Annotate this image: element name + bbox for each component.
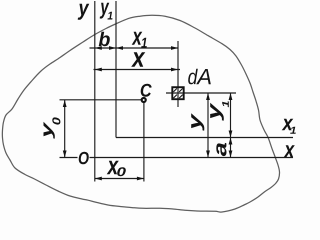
label b (99, 32, 110, 47)
arrowheads x1 dimension (116, 46, 123, 50)
arrowheads a dimension (229, 138, 233, 145)
element dA square (172, 87, 183, 99)
label x0 (dimension) (107, 161, 126, 177)
x axis left stub (60, 157, 78, 159)
centroid C point (142, 98, 146, 102)
arrowheads y0 dimension (63, 100, 67, 107)
arrowheads x dimension (95, 68, 102, 72)
y1 axis (115, 1, 117, 138)
wire extension from C down (143, 102, 145, 182)
label C (141, 84, 152, 97)
label y1 (rotated dimension) (210, 101, 229, 121)
arrowheads y dimension (206, 93, 210, 100)
label y (rotated dimension) (191, 113, 204, 131)
wire dA vertical centerline (177, 41, 179, 107)
arrowheads b dimension (95, 46, 102, 50)
label x1 (axis) (282, 119, 296, 134)
dimension line x (94, 69, 181, 71)
label y1 (axis) (100, 3, 113, 20)
dimension line y0 (64, 100, 66, 158)
label y (axis) (78, 4, 90, 20)
area outline blob (2, 15, 279, 212)
label a (rotated dimension) (216, 143, 226, 156)
label x1 (dimension) (132, 32, 147, 48)
label x (axis) (284, 145, 295, 157)
label y0 (rotated) (44, 117, 61, 138)
x axis (90, 157, 294, 159)
label x (dimension) (131, 52, 145, 67)
dimension line y1 and a (230, 93, 232, 158)
label O origin (79, 152, 89, 165)
dimension line y (207, 93, 209, 158)
arrowheads x0 dimension (95, 177, 102, 181)
wire dA horizontal centerline (166, 92, 236, 94)
dimension line x0 (95, 178, 144, 180)
x1 axis (116, 137, 293, 139)
arrowheads y1 dimension (229, 93, 233, 100)
y axis (94, 1, 96, 182)
label dA (188, 69, 211, 85)
wire extension from C to left (60, 99, 142, 101)
dimension line b and x1 (90, 47, 179, 49)
